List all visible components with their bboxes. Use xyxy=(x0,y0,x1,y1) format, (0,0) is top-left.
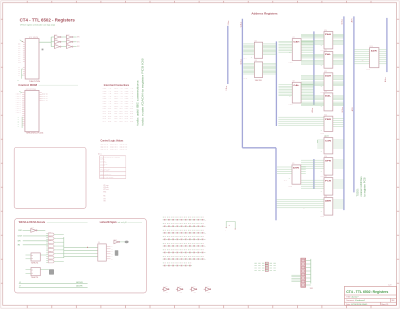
IC4 74HC139 decoder xyxy=(98,244,107,261)
svg-text:IC3C: IC3C xyxy=(55,43,58,45)
register IC5 PCL xyxy=(254,42,262,58)
svg-text:IC10: IC10 xyxy=(324,30,327,32)
svg-text:I12 - D3: I12 - D3 xyxy=(103,116,112,118)
svg-text:A Bus: A Bus xyxy=(384,77,387,82)
svg-text:CPUv4: register and decoder co: CPUv4: register and decoder core logic (… xyxy=(20,24,55,27)
inverter U4 xyxy=(67,35,74,39)
svg-text:PHI2: PHI2 xyxy=(18,230,22,232)
svg-text:Inter-Card Connections: Inter-Card Connections xyxy=(104,84,130,87)
IC18 right band xyxy=(333,200,344,208)
inverter U5B xyxy=(114,240,120,243)
IC5 right band xyxy=(263,44,277,54)
svg-text:D0 q: D0 q xyxy=(42,92,48,94)
gate array row 3 labels xyxy=(163,229,204,232)
inverter U7B xyxy=(176,287,183,291)
rn wire 4 xyxy=(254,269,277,271)
svg-text:IC7B: IC7B xyxy=(180,292,183,294)
IC4 pins xyxy=(106,246,110,258)
svg-text:I14 - D5: I14 - D5 xyxy=(114,121,123,123)
flip-flop FF2 xyxy=(31,268,40,276)
svg-text:74x04: 74x04 xyxy=(165,286,168,288)
svg-text:IC8: IC8 xyxy=(293,81,295,83)
svg-text:W-Bus: W-Bus xyxy=(240,59,242,64)
inverter U2 xyxy=(55,40,62,44)
and gate G8 xyxy=(48,260,54,263)
bus vertical continuation xyxy=(275,148,277,221)
register IC17 PCR xyxy=(324,178,333,196)
svg-text:IC2 27C256: IC2 27C256 xyxy=(26,89,36,91)
svg-text:I12 - D3: I12 - D3 xyxy=(125,116,134,118)
header rule xyxy=(39,84,79,86)
bus ADR xyxy=(353,16,355,192)
svg-text:IC3F: IC3F xyxy=(67,43,70,45)
register IC10 PAH xyxy=(324,32,333,49)
svg-text:74x04: 74x04 xyxy=(179,286,182,288)
svg-text:IO9 - D0: IO9 - D0 xyxy=(103,108,112,110)
flip-flop FF1 xyxy=(31,253,40,261)
IC5 left band xyxy=(243,44,254,54)
gate G5 input stubs xyxy=(46,248,48,250)
gate array row 4 gates xyxy=(163,239,205,240)
IC13 right band xyxy=(333,96,344,99)
connector wires right xyxy=(306,261,311,286)
IC2 lower green wire xyxy=(21,117,23,128)
IC11 right band xyxy=(333,55,344,58)
svg-text:R6: R6 xyxy=(103,195,105,197)
svg-text:pc8..15: pc8..15 xyxy=(244,78,248,80)
rn wire 1 xyxy=(254,262,277,264)
and gate G7 xyxy=(48,256,54,259)
IC1 left pins xyxy=(23,43,25,76)
svg-text:D4 q: D4 q xyxy=(42,100,48,102)
svg-text:Control ROM: Control ROM xyxy=(18,83,37,87)
wire /RD xyxy=(23,244,48,246)
svg-text:74x04: 74x04 xyxy=(31,227,35,229)
svg-text:07/10/2016 08h05: 07/10/2016 08h05 xyxy=(351,304,367,306)
rn resistor 2 xyxy=(265,265,268,267)
wire CLKW xyxy=(23,235,48,237)
gate G6 output xyxy=(54,253,56,255)
rn resistor 1 xyxy=(265,262,268,264)
svg-text:2-Bus: 2-Bus xyxy=(228,21,230,26)
IC19 right band xyxy=(379,50,387,64)
svg-text:D10x: D10x xyxy=(18,61,21,63)
svg-text:IC16: IC16 xyxy=(324,156,327,158)
rn wire 2 xyxy=(254,265,277,267)
wire LATCHW xyxy=(19,283,88,285)
IC15 input tick xyxy=(317,140,319,143)
IC12 left band xyxy=(301,76,324,79)
inverter column 2 input rail xyxy=(66,35,68,49)
IC7 left band xyxy=(279,41,293,52)
svg-text:PBR: PBR xyxy=(325,119,332,121)
svg-text:IC19: IC19 xyxy=(370,46,373,48)
svg-text:todo: add IBE connections: todo: add IBE connections xyxy=(135,80,139,126)
svg-text:74x541: 74x541 xyxy=(366,69,370,71)
svg-text:D1 q: D1 q xyxy=(42,94,48,96)
bus D-Bus xyxy=(275,41,277,126)
IC14 right band xyxy=(333,119,344,127)
svg-text:connect ADR bus: connect ADR bus xyxy=(359,176,363,197)
bus A-Bus far right xyxy=(386,18,388,72)
IC16 left band xyxy=(301,160,324,168)
IC14 left band xyxy=(278,117,324,125)
gate array row 8 gates xyxy=(163,265,192,266)
svg-text:R7: R7 xyxy=(104,199,106,201)
svg-text:IC14: IC14 xyxy=(324,115,327,117)
register IC13 DAL xyxy=(324,93,333,111)
svg-text:W-Bus: W-Bus xyxy=(342,107,344,112)
IC1 74HC574 octal register xyxy=(25,39,39,79)
svg-text:Sheet: 1/1: Sheet: 1/1 xyxy=(381,303,388,306)
gate array row 6 labels xyxy=(163,249,204,252)
and gate G3 xyxy=(48,241,54,244)
bus A-Bus segment b xyxy=(313,159,315,189)
svg-text:IC11: IC11 xyxy=(324,50,327,52)
IC10 right band xyxy=(333,35,344,38)
svg-text:/IR1: /IR1 xyxy=(77,41,80,43)
bus A-Bus segment a xyxy=(313,31,315,105)
signal notes list xyxy=(103,185,109,202)
and gate G2 xyxy=(48,237,54,240)
inverter U6 xyxy=(67,45,74,49)
svg-text:I12 - D3: I12 - D3 xyxy=(114,116,123,118)
wire lower pins xyxy=(21,69,23,79)
gate array row 4 labels xyxy=(163,235,204,238)
svg-text:SPR: SPR xyxy=(325,160,332,162)
inter-card connection table xyxy=(103,87,112,123)
gate array row 3 gates xyxy=(163,232,205,233)
svg-text:74x573: 74x573 xyxy=(320,133,324,135)
IC17 left band xyxy=(301,180,324,188)
svg-text:d0..3: d0..3 xyxy=(284,180,287,182)
gate G7 input stubs xyxy=(46,256,48,258)
svg-text:IC7: IC7 xyxy=(293,37,295,39)
gate G8 input stubs xyxy=(46,260,48,262)
IC2 right pins xyxy=(39,93,42,101)
svg-text:74x04: 74x04 xyxy=(193,286,196,288)
inverter U5A xyxy=(31,229,37,233)
IC8 left band xyxy=(279,85,293,96)
inverter column 1 input rail xyxy=(54,35,56,49)
svg-text:I13 - D4: I13 - D4 xyxy=(125,118,134,120)
svg-text:IC7D: IC7D xyxy=(207,292,210,294)
gate output collector rail xyxy=(63,237,65,258)
svg-text:to register PCB: to register PCB xyxy=(362,177,366,196)
svg-text:A Bus: A Bus xyxy=(311,108,314,113)
svg-text:74x08: 74x08 xyxy=(48,251,51,253)
IC2 control ROM 27C256 xyxy=(25,90,39,131)
register IC18 ABR xyxy=(324,198,333,216)
register IC12 DAH xyxy=(324,73,333,91)
svg-text:ADR: ADR xyxy=(371,49,378,52)
svg-text:TODO:: TODO: xyxy=(356,188,360,196)
connector right rail xyxy=(310,259,312,284)
svg-text:IC17: IC17 xyxy=(324,176,327,178)
svg-text:74x08: 74x08 xyxy=(48,235,51,237)
gate array row 1 gates xyxy=(163,219,205,220)
IC7 right band xyxy=(301,41,314,52)
svg-text:Latches/OE Signals: Latches/OE Signals xyxy=(100,221,118,224)
IC18 left band xyxy=(277,200,324,208)
svg-text:74x08: 74x08 xyxy=(48,259,51,261)
register IC14 PBR xyxy=(324,116,333,131)
svg-text:R8: R8 xyxy=(104,201,106,203)
gate G2 output xyxy=(54,237,56,239)
gate G1 input stubs xyxy=(46,233,48,235)
register IC15 CIR xyxy=(324,138,333,154)
svg-text:R5: R5 xyxy=(103,191,106,193)
svg-text:74HC593: 74HC593 xyxy=(255,80,262,82)
svg-text:gnd: gnd xyxy=(17,80,19,82)
wire IC1 output to inverters xyxy=(39,41,51,43)
wire inverter input bus vertical xyxy=(50,37,52,47)
gate array row 1 labels xyxy=(163,216,204,219)
svg-text:dunno?: dunno? xyxy=(351,296,358,298)
IC15 right band xyxy=(333,140,344,148)
svg-text:IC7C: IC7C xyxy=(193,292,196,294)
svg-text:W5 nop: W5 nop xyxy=(103,185,109,187)
svg-text:I14 - D5: I14 - D5 xyxy=(125,121,134,123)
gate array row 6 gates xyxy=(163,252,205,253)
svg-text:Control Logic Values: Control Logic Values xyxy=(101,140,124,143)
gate array row 7 gates xyxy=(163,258,205,259)
IC13 left band xyxy=(301,96,324,99)
svg-text:CIR: CIR xyxy=(325,140,332,142)
svg-text:IO9 - D0: IO9 - D0 xyxy=(125,108,134,110)
svg-text:74HC74: 74HC74 xyxy=(31,277,39,279)
svg-text:x Wx Wy: x Wx Wy xyxy=(100,170,110,172)
IC9 left band xyxy=(277,167,292,174)
svg-text:IO9 - D0: IO9 - D0 xyxy=(114,108,123,110)
IC8 right band xyxy=(301,85,314,96)
svg-text:ABR: ABR xyxy=(325,199,332,202)
svg-text:I13 - D4: I13 - D4 xyxy=(103,118,112,120)
inverter U7C xyxy=(190,287,197,291)
svg-text:W-Bus: W-Bus xyxy=(240,22,242,27)
register IC19 ADR xyxy=(370,48,379,68)
svg-text:/IR0: /IR0 xyxy=(77,37,80,39)
wire pin 1 xyxy=(20,40,24,42)
svg-text:OAH: OAH xyxy=(293,40,300,43)
svg-text:2-Bus: 2-Bus xyxy=(226,86,228,91)
connector pins xyxy=(302,259,305,286)
inverter U7D xyxy=(204,287,211,291)
svg-text:I11 - D2: I11 - D2 xyxy=(103,113,112,115)
control logic value tables xyxy=(100,144,108,151)
bus W-Bus left xyxy=(241,19,243,148)
svg-text:IC3E: IC3E xyxy=(67,39,70,41)
svg-text:SV1: SV1 xyxy=(310,288,313,290)
connector SV1 xyxy=(301,258,306,287)
svg-text:W3 0 1 0: W3 0 1 0 xyxy=(100,148,108,150)
register IC7 OAH xyxy=(292,39,301,61)
svg-text:CLKW: CLKW xyxy=(18,236,23,238)
svg-text:W8 x inc walk: W8 x inc walk xyxy=(100,177,114,179)
svg-text:74x08: 74x08 xyxy=(48,239,51,241)
gate G2 input stubs xyxy=(46,236,48,238)
svg-text:74x573: 74x573 xyxy=(288,185,292,187)
gate G4 output xyxy=(54,245,56,247)
svg-text:PAH: PAH xyxy=(325,33,332,36)
IC9 right band xyxy=(301,167,306,174)
gray part xyxy=(49,269,54,274)
svg-text:74HC574N 27C256: 74HC574N 27C256 xyxy=(26,133,44,135)
svg-text:W3 0 1 0: W3 0 1 0 xyxy=(120,148,128,150)
svg-text:74HC574N: 74HC574N xyxy=(29,81,41,83)
register IC11 PAL xyxy=(324,52,333,69)
gate G6 input stubs xyxy=(46,252,48,254)
note box (empty) xyxy=(14,148,86,209)
svg-text:D2 q: D2 q xyxy=(42,96,48,98)
svg-text:74x573: 74x573 xyxy=(320,216,324,218)
svg-text:sub 16b: sub 16b xyxy=(324,136,329,138)
register IC16 SPR xyxy=(324,158,333,176)
svg-text:74x573: 74x573 xyxy=(289,104,293,106)
wire /WR xyxy=(23,240,48,242)
IC15 left band xyxy=(317,140,324,148)
bus elbow horizontal xyxy=(242,147,276,149)
svg-text:W3 0 1 0: W3 0 1 0 xyxy=(110,148,118,150)
wire LATCHR xyxy=(19,286,88,288)
wire PHI2 input xyxy=(23,229,31,231)
gate G8 output xyxy=(54,260,56,262)
svg-text:74x04: 74x04 xyxy=(114,239,118,241)
svg-text:IC1 74574: IC1 74574 xyxy=(29,37,38,39)
wire to via xyxy=(120,241,125,243)
svg-text:I11 - D2: I11 - D2 xyxy=(114,113,123,115)
inverter U3 xyxy=(55,45,62,49)
gate G5 output xyxy=(54,249,56,251)
gate array row 5 labels xyxy=(163,242,204,245)
svg-text:I11 - D2: I11 - D2 xyxy=(125,113,134,115)
svg-text:Address Registers: Address Registers xyxy=(251,12,278,16)
svg-text:IC4: IC4 xyxy=(98,242,100,244)
gate G4 input stubs xyxy=(46,244,48,246)
svg-text:I10 - D1: I10 - D1 xyxy=(103,111,112,113)
svg-text:CT4 - TTL 6502: Registers: CT4 - TTL 6502: Registers xyxy=(346,290,388,294)
IC2 wire pin1 xyxy=(19,91,22,92)
jumper JP1 xyxy=(226,222,235,229)
svg-text:W-Bus: W-Bus xyxy=(342,19,344,24)
svg-text:pc0..7: pc0..7 xyxy=(244,58,247,60)
and gate G6 xyxy=(48,252,54,255)
svg-text:IC3B: IC3B xyxy=(55,39,58,41)
gate array row 2 gates xyxy=(163,226,205,227)
gray part 2 xyxy=(115,250,119,256)
IC16 right band xyxy=(333,160,344,168)
signal table rows xyxy=(100,156,120,178)
gray via oval xyxy=(125,241,129,244)
inverter U7A xyxy=(162,287,169,291)
IC10 left band xyxy=(301,35,324,38)
svg-text:74x08: 74x08 xyxy=(48,247,51,249)
gate array row 5 gates xyxy=(163,245,205,246)
gate G3 output xyxy=(54,241,56,243)
IC2 left pins xyxy=(22,93,25,126)
bus 2-Bus xyxy=(227,26,229,84)
gate G3 input stubs xyxy=(46,240,48,242)
svg-text:IC18: IC18 xyxy=(324,196,327,198)
svg-text:PCR: PCR xyxy=(325,180,332,182)
title block xyxy=(345,286,397,305)
gate G1 output xyxy=(54,234,56,236)
svg-text:todo: route /OADH to register: todo: route /OADH to register PCB IO8 xyxy=(141,58,145,125)
inverter U1 xyxy=(55,35,62,39)
svg-text:74x08: 74x08 xyxy=(48,232,51,234)
svg-text:WR-NA & RD-NA Decode: WR-NA & RD-NA Decode xyxy=(19,221,46,224)
svg-text:I10 - D1: I10 - D1 xyxy=(114,111,123,113)
svg-text:74x04: 74x04 xyxy=(207,286,210,288)
register IC6 PCH xyxy=(254,62,262,78)
and gate G5 xyxy=(48,248,54,251)
svg-text:Kadano4: Kadano4 xyxy=(355,300,365,302)
junction dot xyxy=(87,247,88,248)
svg-text:/IR2: /IR2 xyxy=(77,46,80,48)
svg-text:chg 9/7: chg 9/7 xyxy=(388,284,392,286)
gate array row 7 labels xyxy=(163,255,204,258)
svg-text:I14 - D5: I14 - D5 xyxy=(103,121,112,123)
signal table xyxy=(99,156,101,179)
IC12 right band xyxy=(333,76,344,79)
svg-text:DIR: DIR xyxy=(293,168,300,170)
svg-text:W4 Wx Wy: W4 Wx Wy xyxy=(100,168,111,170)
and gate G4 xyxy=(48,245,54,248)
IC19 left band xyxy=(354,50,370,64)
svg-text:74HC74: 74HC74 xyxy=(31,262,39,264)
IC17 right band xyxy=(333,180,344,188)
svg-text:I13 - D4: I13 - D4 xyxy=(114,118,123,120)
svg-text:IC13: IC13 xyxy=(324,91,327,93)
svg-text:DAH: DAH xyxy=(325,75,332,78)
wire inverter output xyxy=(37,229,45,231)
wires into inverter col 1 xyxy=(51,37,76,47)
svg-text:CT4 - TTL 6502 - Registers: CT4 - TTL 6502 - Registers xyxy=(20,17,76,22)
svg-text:LR: LR xyxy=(19,286,21,288)
inverter U5 xyxy=(67,40,74,44)
gate array row 2 labels xyxy=(163,222,204,225)
register IC8 OAL xyxy=(292,82,301,103)
svg-text:D3 q: D3 q xyxy=(42,98,48,100)
svg-text:IC5: IC5 xyxy=(255,41,257,43)
svg-text:IC9: IC9 xyxy=(292,163,294,165)
rn wire 3 xyxy=(254,267,277,269)
svg-text:IC12: IC12 xyxy=(324,71,327,73)
wires to latch IC xyxy=(64,247,98,256)
svg-text:DAL: DAL xyxy=(325,95,332,98)
register IC9 DIR xyxy=(292,165,301,184)
svg-text:Document:: Document: xyxy=(346,299,354,302)
svg-text:OAL: OAL xyxy=(293,84,300,87)
svg-text:74x573: 74x573 xyxy=(289,62,293,64)
and gate G1 xyxy=(48,233,54,236)
decode logic box xyxy=(15,219,147,293)
gate G7 output xyxy=(54,257,56,259)
IC11 left band xyxy=(301,55,324,58)
connector wires left xyxy=(291,275,301,281)
IC6 left band xyxy=(243,64,254,74)
svg-text:W6 adr: W6 adr xyxy=(103,187,109,189)
rn resistor 4 xyxy=(265,269,268,271)
IC6 right band xyxy=(263,64,277,74)
svg-text:74x08: 74x08 xyxy=(48,255,51,257)
svg-text:IC3D: IC3D xyxy=(67,34,70,36)
bus W-Bus right xyxy=(343,16,345,210)
gate array row 8 labels xyxy=(163,262,191,265)
svg-text:IC6: IC6 xyxy=(255,60,257,62)
svg-text:W6 We pc: W6 We pc xyxy=(100,165,105,167)
rn resistor 3 xyxy=(265,267,268,269)
